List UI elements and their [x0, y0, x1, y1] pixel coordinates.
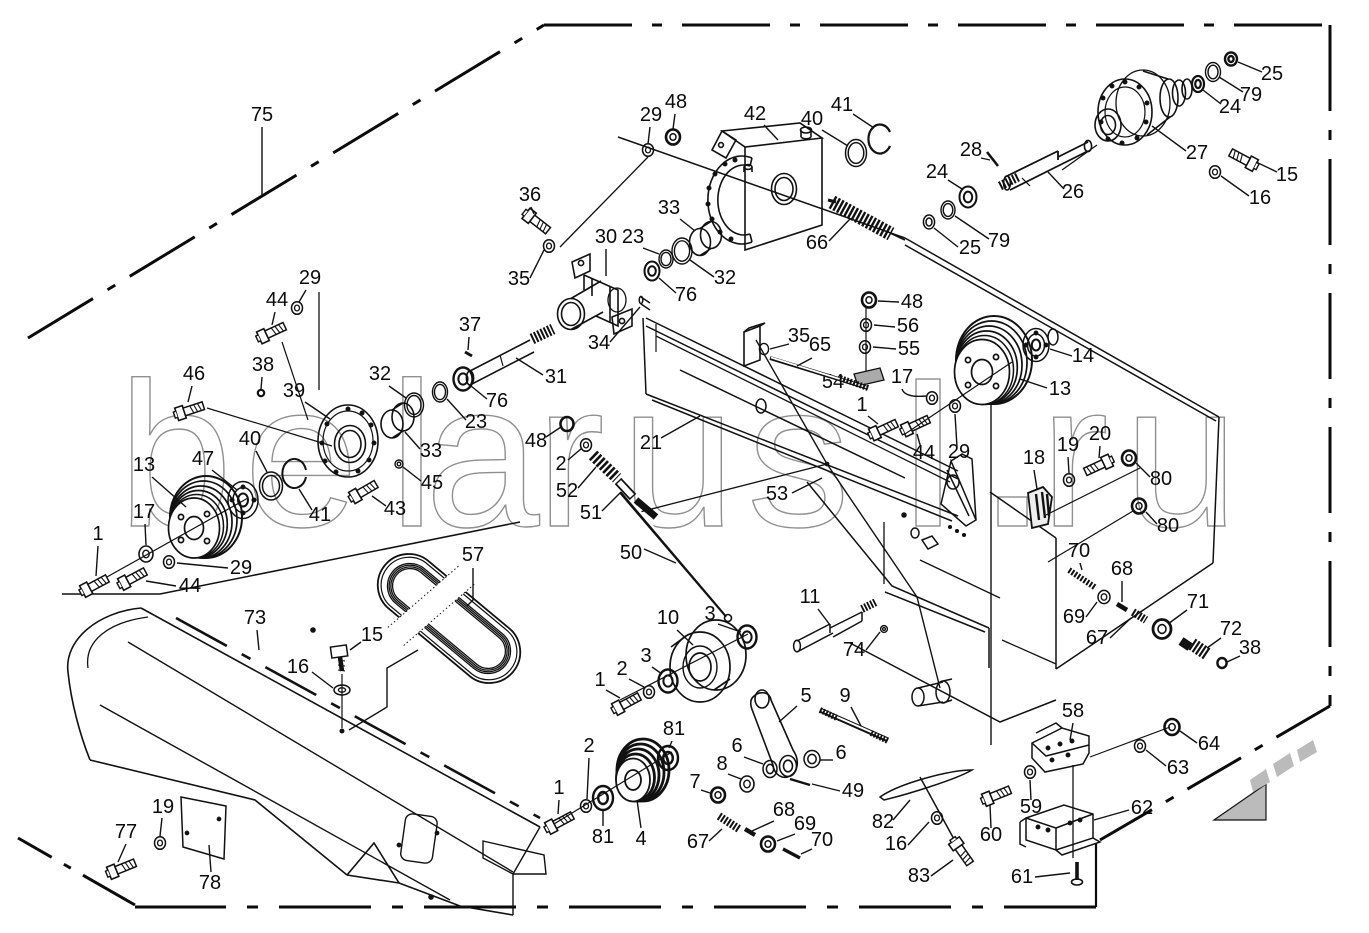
bearing 76 mid	[454, 368, 473, 391]
svg-text:19: 19	[1057, 434, 1079, 456]
bolt 1d	[542, 810, 575, 836]
cover hidden edge dashed	[176, 618, 540, 818]
svg-text:31: 31	[545, 366, 567, 388]
svg-text:46: 46	[183, 363, 205, 385]
svg-text:39: 39	[283, 380, 305, 402]
svg-text:33: 33	[420, 440, 442, 462]
arm 5	[751, 690, 798, 777]
svg-text:66: 66	[806, 232, 828, 254]
svg-text:76: 76	[486, 390, 508, 412]
washer 8	[740, 776, 754, 792]
svg-text:u: u	[621, 340, 736, 570]
belt tear break	[388, 564, 476, 645]
svg-text:14: 14	[1072, 345, 1094, 367]
watermark belarus1.ru	[118, 340, 1239, 570]
svg-text:23: 23	[622, 226, 644, 248]
svg-text:16: 16	[885, 833, 907, 855]
svg-text:35: 35	[788, 325, 810, 347]
ring 23 mid	[433, 382, 448, 402]
svg-text:29: 29	[230, 557, 252, 579]
rings 24 79 25 top right	[1192, 76, 1204, 92]
svg-text:79: 79	[988, 230, 1010, 252]
svg-text:68: 68	[773, 799, 795, 821]
svg-text:9: 9	[839, 685, 850, 707]
svg-text:79: 79	[1240, 84, 1262, 106]
pin 74	[881, 626, 888, 633]
spindle boss left	[912, 679, 952, 706]
bearing 3b	[659, 670, 678, 693]
nut 38	[258, 390, 264, 396]
border bottom-left diagonal	[18, 838, 135, 905]
svg-text:28: 28	[960, 139, 982, 161]
svg-text:44: 44	[913, 442, 935, 464]
svg-text:71: 71	[1187, 591, 1209, 613]
svg-text:29: 29	[640, 104, 662, 126]
svg-text:77: 77	[115, 821, 137, 843]
sleeve 33 mid	[381, 403, 414, 438]
svg-text:25: 25	[959, 237, 981, 259]
svg-text:70: 70	[811, 829, 833, 851]
border top-left diagonal (item 75 line)	[28, 25, 544, 338]
snap ring 41 right	[868, 124, 890, 153]
svg-text:81: 81	[663, 718, 685, 740]
svg-text:63: 63	[1167, 757, 1189, 779]
bearing 3a	[738, 626, 757, 649]
bolt 77, washer 19	[104, 857, 137, 880]
deck edge left	[62, 522, 520, 594]
bolt 9 stud	[820, 710, 888, 741]
svg-text:29: 29	[948, 441, 970, 463]
nut 7	[711, 788, 725, 803]
pulley 13 left	[169, 476, 243, 558]
axis line pulley 4	[554, 752, 672, 824]
svg-text:49: 49	[842, 780, 864, 802]
svg-text:64: 64	[1198, 733, 1220, 755]
MAIN FRAME BEAM 21	[618, 137, 1219, 722]
bolt 36, washer 35	[520, 207, 552, 236]
svg-text:3: 3	[640, 645, 651, 667]
svg-text:80: 80	[1157, 515, 1179, 537]
svg-text:41: 41	[831, 94, 853, 116]
BELT 57	[378, 554, 520, 683]
label 21	[640, 416, 700, 454]
bracket 58	[1032, 723, 1089, 772]
bellcrank gusset on beam end	[941, 454, 976, 526]
svg-text:67: 67	[687, 831, 709, 853]
rod 50, spring 52, pin 51, nut 48, washer 2	[561, 417, 732, 622]
svg-text:74: 74	[843, 639, 865, 661]
ring 45	[395, 460, 403, 468]
svg-text:47: 47	[192, 448, 214, 470]
svg-text:15: 15	[1276, 164, 1298, 186]
svg-text:16: 16	[287, 656, 309, 678]
svg-text:2: 2	[583, 735, 594, 757]
svg-text:24: 24	[926, 161, 948, 183]
svg-text:76: 76	[675, 284, 697, 306]
housing 42	[706, 123, 822, 250]
ring 40 left	[260, 472, 283, 500]
bracket 35b and rod 65	[744, 323, 868, 388]
svg-text:27: 27	[1186, 142, 1208, 164]
washer 63 nut 64	[1090, 727, 1170, 757]
washer 29 left	[164, 556, 175, 569]
svg-text:u: u	[1124, 340, 1239, 570]
svg-text:70: 70	[1068, 540, 1090, 562]
svg-text:80: 80	[1150, 468, 1172, 490]
ring 23 right of 30	[659, 250, 673, 268]
svg-text:26: 26	[1062, 181, 1084, 203]
svg-text:83: 83	[908, 865, 930, 887]
bolt 15 washer 16 right	[1228, 147, 1261, 173]
pulley 4 dark	[616, 739, 669, 802]
bearing 81a	[593, 786, 613, 810]
hub 47	[98, 482, 258, 583]
svg-text:29: 29	[299, 267, 321, 289]
sleeve 33 right of 30	[690, 222, 722, 256]
svg-text:17: 17	[891, 366, 913, 388]
ring 32 right of 30	[672, 238, 692, 264]
axis line idler 10	[620, 634, 748, 700]
label 53 + rod 53	[640, 340, 991, 745]
svg-text:42: 42	[744, 103, 766, 125]
bolt 44 left	[115, 566, 148, 592]
pulley 13 right	[955, 316, 1033, 405]
blade 82, washer 16c, bolt 83	[880, 770, 972, 841]
svg-text:33: 33	[658, 197, 680, 219]
svg-text:32: 32	[369, 363, 391, 385]
svg-text:40: 40	[239, 428, 261, 450]
svg-text:13: 13	[133, 454, 155, 476]
svg-text:23: 23	[465, 411, 487, 433]
svg-text:48: 48	[665, 91, 687, 113]
svg-text:55: 55	[898, 338, 920, 360]
svg-text:4: 4	[635, 828, 646, 850]
hub 27	[1062, 70, 1192, 170]
svg-text:11: 11	[800, 586, 821, 608]
spring 66	[828, 200, 905, 240]
bracket 62	[1020, 805, 1100, 855]
svg-text:16: 16	[1249, 187, 1271, 209]
bearing 76 right of 30	[645, 262, 660, 281]
idler pulley 10	[670, 620, 746, 702]
svg-text:48: 48	[525, 430, 547, 452]
pin 34	[639, 296, 650, 310]
svg-text:62: 62	[1131, 797, 1153, 819]
svg-text:a: a	[425, 340, 540, 570]
svg-text:1: 1	[92, 523, 103, 545]
shaft 31	[465, 329, 553, 385]
svg-text:81: 81	[592, 826, 614, 848]
bearing 81b	[658, 746, 678, 770]
svg-text:7: 7	[689, 771, 700, 793]
hub 14	[1023, 329, 1058, 362]
bolt 43	[346, 478, 379, 505]
svg-text:43: 43	[384, 498, 406, 520]
washer stack 48 56 55 54	[865, 308, 867, 374]
bolt 1 left	[77, 573, 110, 599]
svg-text:52: 52	[556, 480, 578, 502]
extra frame inner lines	[656, 336, 1056, 664]
svg-text:1: 1	[553, 777, 564, 799]
svg-text:67: 67	[1086, 627, 1108, 649]
svg-text:30: 30	[595, 226, 617, 248]
svg-text:21: 21	[640, 432, 662, 454]
label 75	[251, 104, 273, 196]
bushing 6 left	[763, 761, 777, 778]
svg-text:58: 58	[1062, 700, 1084, 722]
svg-text:2: 2	[555, 453, 566, 475]
washer 29 top-c, nut 48 top-c	[643, 144, 654, 157]
shaft 11	[794, 602, 876, 652]
svg-text:53: 53	[766, 483, 788, 505]
svg-text:8: 8	[716, 753, 727, 775]
svg-text:61: 61	[1011, 866, 1033, 888]
svg-text:44: 44	[179, 575, 201, 597]
housing 30	[558, 254, 633, 334]
ring 32 mid	[405, 393, 424, 417]
snap ring 41 left	[282, 459, 306, 488]
svg-text:44: 44	[266, 289, 288, 311]
bolt 15 washer 16 on cover	[330, 645, 350, 733]
svg-text:34: 34	[588, 332, 610, 354]
bushing 6 right	[804, 751, 820, 768]
svg-text:48: 48	[901, 291, 923, 313]
border top edge	[544, 24, 1330, 27]
svg-text:32: 32	[714, 267, 736, 289]
washer 59 bolt 60	[1025, 766, 1036, 779]
svg-text:6: 6	[731, 735, 742, 757]
svg-text:68: 68	[1111, 558, 1133, 580]
washer 2d	[581, 800, 592, 813]
svg-text:50: 50	[620, 542, 642, 564]
svg-text:18: 18	[1023, 447, 1045, 469]
svg-text:1: 1	[594, 669, 605, 691]
svg-text:69: 69	[1063, 606, 1085, 628]
svg-text:13: 13	[1049, 378, 1071, 400]
svg-text:20: 20	[1089, 423, 1111, 445]
svg-text:19: 19	[152, 796, 174, 818]
svg-text:2: 2	[616, 658, 627, 680]
svg-text:57: 57	[462, 544, 484, 566]
svg-text:78: 78	[199, 872, 221, 894]
svg-text:24: 24	[1219, 96, 1241, 118]
bolt 61	[1072, 862, 1083, 885]
svg-text:45: 45	[421, 472, 443, 494]
washer 17 left	[139, 546, 153, 562]
svg-text:56: 56	[897, 315, 919, 337]
border right edge	[1329, 25, 1332, 706]
svg-text:1: 1	[856, 394, 867, 416]
border bottom-right riser	[1095, 843, 1097, 907]
svg-text:10: 10	[657, 607, 679, 629]
pin 49	[790, 779, 810, 785]
svg-text:35: 35	[508, 268, 530, 290]
svg-text:38: 38	[1239, 637, 1261, 659]
bolt 1c	[609, 691, 642, 717]
shaft 26	[1000, 140, 1092, 190]
belt mount leader	[349, 650, 418, 730]
border bottom edge	[135, 906, 1096, 909]
plate 18, washer 19b, bolt 20, nuts 80	[1028, 487, 1052, 528]
svg-text:51: 51	[580, 502, 602, 524]
svg-text:41: 41	[309, 504, 331, 526]
border bottom-right diagonal	[1100, 706, 1330, 840]
svg-text:36: 36	[519, 184, 541, 206]
bolt 44 top / washer 29 top	[254, 320, 287, 345]
svg-text:40: 40	[801, 108, 823, 130]
travel arrow icon	[1214, 740, 1317, 820]
bolt 1b 44c washers 17b 29d	[866, 417, 899, 442]
svg-text:75: 75	[251, 104, 273, 126]
ring 40 right	[846, 140, 867, 167]
panel 78	[181, 797, 226, 859]
washer 2c	[644, 686, 655, 699]
svg-text:25: 25	[1261, 63, 1283, 85]
svg-text:37: 37	[459, 314, 481, 336]
flange 39	[318, 405, 378, 477]
svg-text:3: 3	[704, 603, 715, 625]
svg-text:65: 65	[809, 334, 831, 356]
bearing 24b, rings 79b 25b	[960, 187, 977, 208]
svg-text:38: 38	[252, 354, 274, 376]
chain 70 69 68 67 71 72 38 right	[1069, 570, 1227, 668]
bolt 46	[172, 399, 205, 421]
svg-text:17: 17	[133, 501, 155, 523]
svg-text:82: 82	[872, 811, 894, 833]
pin 28	[987, 152, 998, 166]
svg-text:73: 73	[244, 607, 266, 629]
svg-text:15: 15	[361, 624, 383, 646]
spring 67b, stud 68b, nut 69b, pin 70b	[719, 816, 800, 858]
COVER 73	[68, 608, 546, 915]
svg-text:5: 5	[800, 685, 811, 707]
svg-text:6: 6	[835, 742, 846, 764]
